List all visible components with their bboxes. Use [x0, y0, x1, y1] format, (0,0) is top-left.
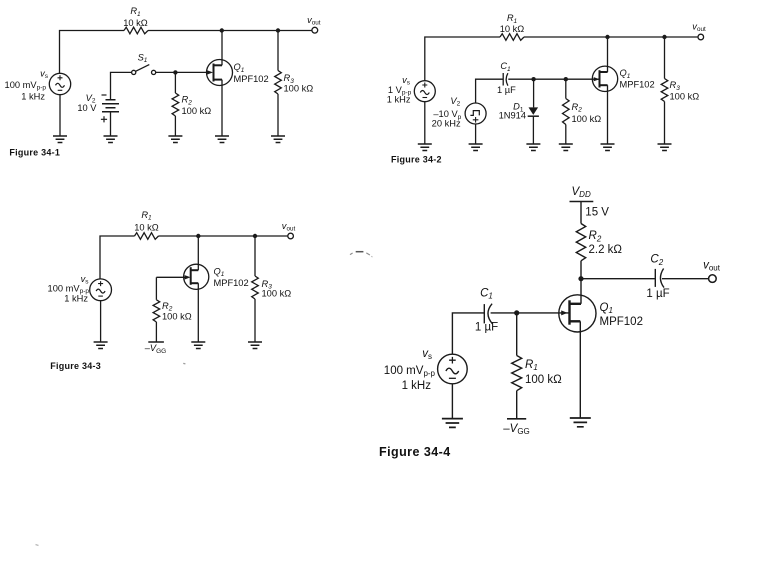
- Q1 drain stub (fig1): [214, 64, 223, 66]
- diode D1 (fig2) cathode bar: [528, 115, 539, 117]
- source V2 (fig2) pulse glyph: [470, 111, 479, 116]
- stray speck bottom-left: [36, 545, 39, 546]
- resistor R2 (fig1) zigzag: [172, 93, 179, 116]
- gate arrowhead (fig1): [207, 70, 213, 74]
- source Vs (fig1) plus sign: [58, 75, 63, 80]
- capacitor C2 (fig4) left plate: [654, 269, 656, 287]
- wire: Vs bottom to ground (fig4): [451, 384, 453, 419]
- svg-text:1 µF: 1 µF: [497, 85, 516, 95]
- capacitor C1 (fig4) curved plate: [488, 304, 492, 324]
- Q1 source stub (fig2): [600, 84, 608, 86]
- wire: R3 bottom (fig2): [664, 102, 666, 145]
- ground under Q1 (fig4): [570, 418, 591, 427]
- ground under Vs (fig4): [442, 419, 463, 428]
- capacitor C1 (fig2) curved plate: [506, 73, 508, 86]
- ground under Vs (fig2): [418, 144, 432, 151]
- switch S1 (fig1) right contact: [152, 70, 156, 74]
- svg-text:1 µF: 1 µF: [646, 288, 669, 300]
- wire: C1 to gate node (fig4): [491, 312, 517, 314]
- svg-text:100 kΩ: 100 kΩ: [670, 92, 700, 102]
- svg-text:100 kΩ: 100 kΩ: [182, 106, 212, 116]
- source Vs (fig4) plus sign: [449, 357, 456, 364]
- wire: Vs bottom to ground (fig1): [59, 95, 61, 136]
- wire: D1 bottom (fig2): [532, 116, 534, 144]
- node: drain junction (fig4): [578, 276, 583, 281]
- wire: switch to gate (fig1): [156, 71, 209, 73]
- Q1 channel bar (fig3): [190, 267, 192, 285]
- svg-text:2.2 kΩ: 2.2 kΩ: [589, 244, 623, 256]
- wire: fig2 top rail left segment: [425, 37, 500, 81]
- ground under R2 (fig1): [168, 136, 182, 143]
- wire: V2 bottom to ground (fig2): [475, 124, 477, 144]
- svg-text:100 kΩ: 100 kΩ: [572, 114, 602, 124]
- svg-text:1N914: 1N914: [499, 110, 526, 120]
- gate arrowhead (fig2): [594, 77, 600, 81]
- svg-text:1 kHz: 1 kHz: [402, 380, 432, 392]
- source Vs (fig4) sine glyph: [446, 368, 459, 374]
- wire: R2 bottom (fig1): [174, 116, 176, 136]
- wire: fig1 top rail right segment: [148, 30, 312, 32]
- wire: fig1 top rail left segment: [60, 31, 125, 74]
- ground under R3 (fig3): [248, 342, 262, 349]
- wire: Vs bottom to ground (fig3): [100, 301, 102, 342]
- wire: V2 top to C1 (fig2): [476, 79, 504, 103]
- source Vs (fig3) plus sign: [98, 281, 103, 286]
- terminal vout (fig3): [288, 233, 294, 239]
- ground under Q1 (fig3): [191, 342, 205, 349]
- gate arrowhead (fig4): [561, 310, 567, 315]
- svg-text:15 V: 15 V: [585, 206, 609, 218]
- wire: R2 top (fig2): [565, 79, 567, 98]
- svg-text:1 kHz: 1 kHz: [387, 95, 411, 105]
- source Vs (fig4) minus sign: [449, 377, 456, 379]
- node: fig3 R3 junction: [253, 234, 257, 238]
- stray speck fig3: [183, 362, 185, 364]
- svg-text:100 kΩ: 100 kΩ: [262, 288, 292, 298]
- svg-text:1 µF: 1 µF: [475, 321, 498, 333]
- svg-text:MPF102: MPF102: [600, 316, 643, 328]
- resistor R3 (fig3) zigzag: [252, 276, 259, 299]
- wire: R3 bottom (fig3): [254, 299, 256, 342]
- diode D1 (fig2) triangle: [529, 107, 539, 115]
- source Vs (fig2) minus sign: [423, 97, 428, 99]
- transistor Q1 (fig4) circle: [559, 295, 596, 332]
- wire: fig2 top rail right segment: [524, 36, 698, 38]
- svg-text:10 kΩ: 10 kΩ: [123, 18, 148, 28]
- source Vs (fig3) minus sign: [98, 295, 103, 297]
- wire: Q1 source to ground (fig4): [579, 321, 581, 418]
- wire: Vs bottom to ground (fig2): [424, 102, 426, 144]
- wire: R3 top (fig2): [664, 37, 666, 79]
- svg-text:10 kΩ: 10 kΩ: [134, 222, 159, 232]
- node: fig1 drain junction on rail: [220, 28, 224, 32]
- wire: Q1 source to ground (fig1): [221, 80, 223, 136]
- wire: Q1 source to ground (fig3): [197, 283, 199, 342]
- wire: fig3 top rail right segment: [159, 235, 289, 237]
- Q1 channel bar (fig4): [568, 300, 570, 324]
- wire: battery V2 top to switch (fig1): [111, 72, 132, 99]
- wire: Q1 drain to rail (fig1): [221, 31, 223, 66]
- wire: R2 bottom (fig3): [155, 322, 157, 342]
- label minus of V2 (fig1): [102, 94, 107, 96]
- svg-text:100 kΩ: 100 kΩ: [525, 374, 562, 386]
- wire: Q1 source to ground (fig2): [607, 85, 609, 144]
- wire: D1 top (fig2): [533, 79, 535, 107]
- node: fig3 drain junction: [196, 234, 200, 238]
- source Vs (fig2) circle: [414, 81, 435, 102]
- resistor R3 (fig2) zigzag: [661, 79, 668, 102]
- svg-text:Figure 34-4: Figure 34-4: [379, 445, 451, 459]
- stray print artifact arc left of fig4: [350, 253, 353, 255]
- svg-text:MPF102: MPF102: [234, 74, 269, 84]
- source V2 (fig2) plus sign: [473, 117, 479, 123]
- node: fig2 R3 junction: [662, 35, 666, 39]
- svg-text:10 V: 10 V: [77, 103, 97, 113]
- node: gate/R1 junction (fig4): [514, 310, 519, 315]
- svg-text:20 kHz: 20 kHz: [432, 119, 461, 129]
- supply bar -VGG terminator (fig3): [148, 341, 164, 343]
- resistor R2 (fig3) zigzag: [153, 300, 160, 322]
- resistor R1 (fig3) zigzag: [135, 233, 159, 240]
- terminal vout (fig2): [698, 34, 704, 40]
- node: R2 junction (fig2): [564, 77, 568, 81]
- node: D1 junction (fig2): [531, 77, 535, 81]
- ground under R2 (fig2): [559, 144, 573, 151]
- svg-text:Figure 34-1: Figure 34-1: [9, 148, 60, 158]
- wire: gate horizontal (fig3): [156, 276, 185, 278]
- wire: R3 top (fig3): [254, 236, 256, 276]
- svg-text:1 kHz: 1 kHz: [64, 294, 88, 304]
- resistor R2 (fig2) zigzag: [563, 99, 570, 125]
- wire: Q1 drain to rail (fig2): [607, 37, 609, 72]
- wire: R1 bottom (fig4): [516, 391, 518, 419]
- ground under R3 (fig2): [658, 144, 672, 151]
- switch S1 (fig1) left contact: [132, 70, 136, 74]
- wire: drain node down to Q1 (fig4): [580, 279, 582, 304]
- wire: R1 top (fig4): [516, 313, 518, 356]
- source Vs (fig2) sine glyph: [420, 91, 429, 95]
- Q1 drain stub (fig2): [600, 71, 608, 73]
- supply bar -VGG terminator (fig4): [507, 418, 526, 420]
- resistor R2 (fig4) zigzag: [576, 224, 585, 261]
- wire: battery V2 bottom to ground (fig1): [110, 112, 112, 136]
- capacitor C1 (fig2) left plate: [502, 73, 504, 86]
- source Vs (fig1) circle: [49, 73, 70, 94]
- wire: drain node to C2 (fig4): [581, 278, 655, 280]
- svg-text:100 kΩ: 100 kΩ: [284, 84, 314, 94]
- wire: R3 top (fig1): [277, 31, 279, 71]
- wire: gate corner down to R2 (fig3): [155, 277, 157, 300]
- resistor R1 (fig1) zigzag: [124, 27, 148, 34]
- wire: fig3 top rail left segment: [100, 236, 135, 279]
- source V2 (fig2) circle: [465, 103, 486, 124]
- source Vs (fig4) circle: [438, 354, 468, 384]
- battery V2 (fig1) plates: [102, 100, 119, 112]
- terminal vout (fig4): [709, 275, 717, 283]
- wire: C1 to gate (fig2): [508, 78, 599, 80]
- transistor Q1 (fig2) circle: [592, 66, 617, 91]
- source Vs (fig2) plus sign: [422, 83, 427, 88]
- resistor R1 (fig2) zigzag: [500, 34, 524, 41]
- transistor Q1 (fig1) circle: [207, 60, 233, 86]
- wire: Q1 drain to rail (fig3): [197, 236, 199, 270]
- terminal vout (fig1): [312, 27, 318, 33]
- node: gate/R2 junction (fig1): [173, 70, 177, 74]
- capacitor C1 (fig4) left plate: [483, 304, 485, 323]
- wire: Vs to C1 (fig4): [452, 313, 484, 354]
- Q1 drain stub (fig4): [570, 303, 582, 305]
- ground under Vs (fig3): [94, 342, 108, 349]
- ground under D1 (fig2): [526, 144, 540, 151]
- Q1 source stub (fig3): [191, 282, 199, 284]
- ground under Vs (fig1): [53, 136, 67, 143]
- Q1 channel bar (fig1): [213, 64, 215, 82]
- resistor R3 (fig1) zigzag: [275, 71, 282, 95]
- node: fig2 drain junction: [605, 35, 609, 39]
- ground under V2 (fig1): [104, 136, 118, 143]
- Q1 drain stub (fig3): [191, 269, 199, 271]
- resistor R1 (fig4) zigzag: [512, 356, 522, 391]
- svg-text:Figure 34-3: Figure 34-3: [50, 361, 101, 371]
- transistor Q1 (fig3) circle: [184, 264, 209, 289]
- svg-text:10 kΩ: 10 kΩ: [500, 24, 525, 34]
- ground under Q1 (fig2): [601, 144, 615, 151]
- node: fig1 R3 junction on rail: [276, 28, 280, 32]
- source Vs (fig3) circle: [90, 279, 112, 301]
- wire: R2 top (fig1): [174, 72, 176, 93]
- ground under R3 (fig1): [271, 136, 285, 143]
- Q1 channel bar (fig2): [599, 70, 601, 87]
- svg-text:MPF102: MPF102: [620, 80, 655, 90]
- ground under Q1 source (fig1): [215, 136, 229, 143]
- svg-text:100 kΩ: 100 kΩ: [162, 312, 192, 322]
- source Vs (fig1) minus sign: [58, 89, 63, 91]
- ground under V2 (fig2): [469, 144, 483, 151]
- wire: R3 bottom (fig1): [277, 94, 279, 136]
- source Vs (fig3) sine glyph: [96, 289, 105, 293]
- wire: gate to R1 node (fig4): [517, 312, 570, 314]
- wire: R2 bottom (fig2): [565, 125, 567, 145]
- svg-text:Figure 34-2: Figure 34-2: [391, 154, 442, 164]
- switch S1 (fig1) lever: [136, 65, 150, 72]
- svg-text:1 kHz: 1 kHz: [21, 92, 45, 102]
- wire: VDD to R2 (fig4): [580, 202, 582, 224]
- wire: R2 to drain node (fig4): [580, 261, 582, 279]
- source Vs (fig1) sine glyph: [56, 83, 65, 87]
- label plus of V2 (fig1): [101, 116, 107, 122]
- Q1 source stub (fig1): [214, 79, 223, 81]
- capacitor C2 (fig4) curved plate: [660, 269, 664, 288]
- gate arrowhead (fig3): [185, 275, 191, 279]
- VDD supply bar (fig4): [570, 201, 594, 203]
- wire: C2 to vout (fig4): [662, 278, 709, 280]
- Q1 source stub (fig4): [570, 320, 581, 322]
- svg-text:MPF102: MPF102: [214, 278, 249, 288]
